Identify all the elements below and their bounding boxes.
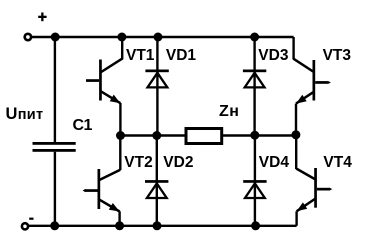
diode VD1 (145, 70, 168, 88)
transistor VT4 (296, 168, 332, 211)
wire mid rail right (load to VT3/VT4 node) (222, 134, 296, 136)
junction node mid rail / VD3-VD4 (250, 131, 259, 140)
wire VD1 branch vertical (156, 37, 158, 136)
wire left vertical upper (54, 37, 56, 142)
wire VT3 collector vertical (292, 37, 294, 60)
wire VT4 emitter vertical (295, 211, 297, 226)
svg-text:VD3: VD3 (258, 47, 289, 64)
svg-text:VT3: VT3 (323, 47, 352, 64)
label - (29, 218, 33, 220)
wire bottom rail (27, 225, 297, 227)
junction node bottom rail / VD2 (153, 221, 162, 230)
diode VD3 (243, 70, 266, 88)
terminal + (positive input) (25, 34, 31, 40)
label + (38, 13, 46, 22)
svg-text:VD4: VD4 (259, 154, 290, 171)
transistor VT1 (86, 59, 122, 104)
wire VT3 emitter vertical (295, 104, 297, 136)
wire VT1 collector vertical (121, 37, 123, 60)
junction node mid rail / VD1-VD2 (152, 131, 161, 140)
junction node mid rail / VT3-VT4 (291, 130, 300, 139)
junction node top rail / left vertical (51, 33, 60, 42)
svg-text:VD2: VD2 (163, 154, 193, 171)
svg-text:C1: C1 (73, 117, 93, 134)
svg-text:VT4: VT4 (323, 154, 352, 171)
junction node bottom rail / left vertical (50, 221, 59, 230)
wire VD3 branch vertical (253, 37, 255, 136)
wire VT2 emitter vertical (118, 211, 120, 226)
load resistor Zн (186, 129, 222, 144)
svg-text:VT2: VT2 (124, 154, 152, 171)
svg-text:VD1: VD1 (166, 47, 197, 64)
wire VD2 branch vertical (156, 136, 158, 226)
wire VD4 branch vertical (254, 136, 256, 226)
junction node bottom rail / VD4 (251, 221, 260, 230)
transistor VT2 (83, 169, 121, 212)
junction node top rail / VT1 collector (117, 33, 126, 42)
wire VT1 emitter vertical (119, 103, 121, 136)
svg-text:VT1: VT1 (126, 47, 155, 64)
svg-text:Uпит: Uпит (6, 105, 44, 123)
wire top rail (31, 36, 294, 38)
junction node mid rail / VT1-VT2 (116, 131, 125, 140)
transistor VT3 (294, 59, 331, 104)
capacitor C1 (33, 142, 76, 152)
wire VT2 collector vertical (119, 136, 121, 171)
junction node top rail / VD3 (250, 33, 259, 42)
svg-text:Zн: Zн (219, 103, 239, 120)
wire left vertical lower (54, 152, 56, 226)
diode VD4 (243, 180, 266, 198)
junction node top rail / VD1 (154, 33, 163, 42)
wire mid rail left (VT1/VT2 node to load) (121, 134, 187, 136)
terminal - (negative input) (22, 223, 28, 229)
junction node bottom rail / VT2 emitter (115, 221, 124, 230)
wire VT4 collector vertical (295, 136, 297, 170)
diode VD2 (145, 180, 168, 198)
